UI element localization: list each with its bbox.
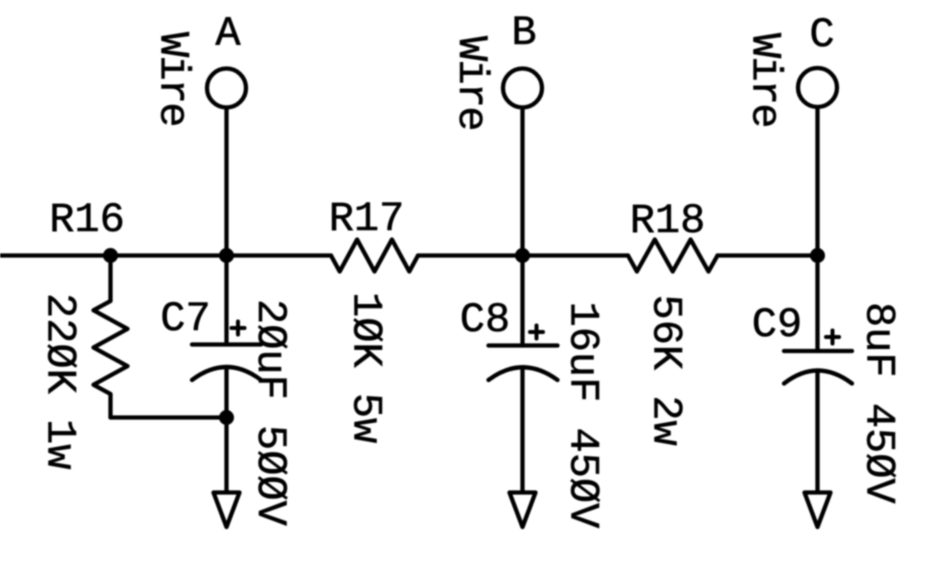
svg-text:16uF 45ØV: 16uF 45ØV [559,302,607,529]
svg-text:B: B [511,9,536,57]
resistor R18 [628,240,718,272]
svg-text:C9: C9 [752,301,802,349]
capacitor C7 [192,256,261,418]
wire C7 node to ground [224,418,228,493]
capacitor C8 [489,256,558,493]
wire stub B [520,108,524,256]
resistor R16 [94,256,128,418]
svg-text:C: C [809,11,834,59]
svg-text:56K 2w: 56K 2w [642,295,690,446]
svg-text:Wire: Wire [741,33,789,127]
terminal circle C [798,68,837,107]
node C7 bottom junction [219,410,234,425]
svg-text:22ØK 1w: 22ØK 1w [36,293,84,469]
svg-text:C8: C8 [460,296,510,344]
ground arrow B [510,493,536,528]
svg-text:8uF 45ØV: 8uF 45ØV [855,302,903,504]
ground arrow A [214,493,240,528]
node C junction [810,248,825,263]
wire main bus middle segment [418,253,628,257]
wire stub C [815,107,819,256]
node junction R16 [103,248,118,263]
terminal circle A [207,69,246,108]
wire main bus left segment [0,253,331,257]
terminal circle B [503,69,542,108]
svg-text:Wire: Wire [447,36,495,130]
wire main bus right segment [718,253,818,257]
wire R16 bottom to C7 node [111,415,227,419]
capacitor C9 [784,256,852,493]
svg-text:A: A [215,10,241,58]
wire stub A [224,108,228,256]
ground arrow C [805,493,831,528]
svg-text:R17: R17 [329,195,405,243]
node A junction [219,248,234,263]
resistor R17 [331,240,418,272]
svg-text:R18: R18 [630,197,706,245]
svg-text:R16: R16 [49,196,125,244]
svg-text:C7: C7 [160,295,210,343]
svg-text:Wire: Wire [149,32,197,126]
node B junction [515,248,530,263]
svg-text:2ØuF 5ØØV: 2ØuF 5ØØV [246,299,294,526]
svg-text:1ØK 5w: 1ØK 5w [342,292,390,443]
